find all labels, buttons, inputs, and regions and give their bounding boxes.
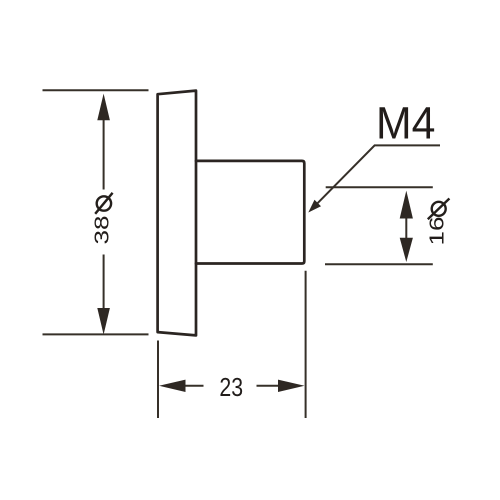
svg-text:23: 23 — [219, 373, 243, 403]
svg-text:M4: M4 — [376, 98, 435, 148]
svg-text:38: 38 — [90, 216, 113, 245]
svg-text:16: 16 — [425, 217, 448, 246]
